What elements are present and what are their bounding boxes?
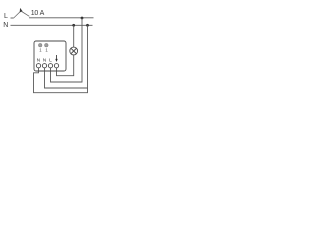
screw S2 [44, 43, 48, 47]
wire L rail [29, 17, 94, 19]
junction dot L-tap [81, 17, 84, 20]
circuit breaker F1 blade [14, 11, 21, 18]
lamp E1 [70, 47, 78, 55]
terminal T4 [54, 64, 58, 68]
svg-text:1: 1 [39, 48, 42, 53]
svg-text:L: L [4, 13, 8, 20]
terminal T3 [48, 64, 52, 68]
wire lamp drop lower to terminal 4 [57, 55, 74, 76]
svg-text:N: N [37, 57, 41, 63]
wire L tap to terminal 3 [51, 18, 83, 82]
terminal T2 [42, 64, 46, 68]
wire N bottom run to terminal 1 [34, 68, 88, 93]
junction dot lamp-N [72, 24, 75, 27]
circuit breaker F1 link [22, 11, 30, 16]
circuit wiring diagram 98x98 [0, 0, 98, 98]
svg-text:L: L [49, 57, 52, 63]
wire L lead-in [11, 17, 14, 19]
svg-text:N: N [43, 57, 47, 63]
device box U1 [34, 41, 66, 71]
wire N tap to terminal 2 [45, 25, 88, 88]
arrow output symbol [56, 55, 58, 59]
screw S1 [38, 43, 42, 47]
wire N rail [11, 24, 93, 26]
svg-text:N: N [3, 22, 8, 29]
svg-text:10 A: 10 A [31, 10, 45, 17]
wire lamp drop upper [73, 25, 75, 47]
circuit breaker F1 flag [20, 8, 23, 12]
terminal T1 [36, 64, 40, 68]
junction dot N-tap [86, 24, 89, 27]
svg-text:1: 1 [45, 48, 48, 53]
